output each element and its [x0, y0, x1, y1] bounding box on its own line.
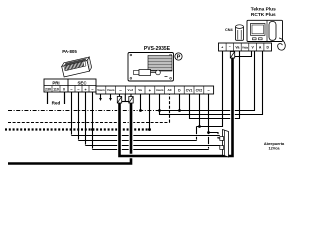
monitor body — [247, 20, 285, 50]
svg-text:RCTK Plus: RCTK Plus — [251, 12, 276, 18]
wire: PVS CV2 drop — [199, 94, 201, 127]
wire: riser arrow stub Vsum1 — [100, 94, 102, 98]
handset cord — [278, 38, 286, 50]
wire: mains wire from PRI 0 — [64, 92, 66, 104]
wire: SEC1 down and right to door strike top terminal — [71, 92, 73, 136]
svg-text:Tekna Plus: Tekna Plus — [251, 7, 276, 13]
node: junction SEC4/H3 — [91, 128, 94, 131]
svg-text:Va: Va — [235, 45, 239, 49]
wire: mains wire from PRI 230 — [47, 92, 49, 104]
svg-text:+: + — [221, 45, 223, 49]
svg-text:Asum: Asum — [156, 88, 164, 92]
splice connector on wire B at monitor end — [230, 52, 234, 59]
svg-text:Vsum: Vsum — [97, 88, 105, 92]
wire: PVS + drop to H3 — [149, 94, 151, 130]
svg-text:Va: Va — [138, 88, 142, 92]
wire: PVS Va drop to H1 — [140, 94, 142, 111]
wire: riser arrow stub Vsum2 — [110, 94, 112, 98]
svg-text:CN4: CN4 — [225, 28, 233, 32]
wire: thin stubs and bridge above splices — [119, 94, 121, 97]
svg-text:CV1: CV1 — [186, 89, 193, 93]
wire: bus H1 solid part to monitor V — [160, 51, 255, 111]
wire: PVS last cell drop, y132 run to strike — [209, 94, 220, 138]
wire: bus H2 dashed — [8, 122, 170, 124]
symbol: circled P — [175, 53, 182, 61]
wire: dashed riser A0 — [169, 94, 171, 123]
svg-text:Abrepuerta: Abrepuerta — [264, 142, 285, 146]
wire: thick wire A from left edge up to PVS V+2 — [8, 102, 131, 164]
svg-text:−: − — [229, 45, 231, 49]
svg-text:P: P — [177, 55, 181, 61]
wire: SEC4 down through H3 and right to x209 riser — [92, 92, 94, 150]
wire: PVS D drop to H1 — [179, 94, 181, 111]
transformer PA-805 body — [61, 57, 92, 77]
node: junction CV2/y126 — [198, 125, 201, 128]
svg-text:0: 0 — [63, 88, 65, 92]
svg-text:Vsum: Vsum — [107, 88, 115, 92]
door panel PVS-2935E body — [128, 53, 174, 82]
svg-text:PRI: PRI — [52, 80, 59, 85]
wire: thin feed from monitor Vida cell to splice — [235, 51, 252, 57]
svg-text:Vida: Vida — [242, 45, 248, 49]
door strike (abrepuerta) symbol — [220, 130, 229, 158]
svg-text:230: 230 — [45, 88, 51, 92]
svg-text:~: ~ — [119, 88, 122, 93]
splice connector on wire A — [129, 97, 133, 104]
splice connector on wire B — [117, 97, 121, 104]
svg-text:PVS-2935E: PVS-2935E — [144, 46, 171, 52]
svg-text:110: 110 — [53, 88, 59, 92]
svg-text:12Vca: 12Vca — [269, 147, 281, 151]
wire: thick wire B from PVS ~ to monitor - — [120, 58, 233, 156]
svg-text:V+2: V+2 — [128, 88, 134, 92]
svg-text:SEC: SEC — [77, 80, 87, 85]
connector CN4 body — [236, 25, 244, 40]
wire: PVS Asum drop to y114 run then monitor A — [160, 51, 263, 115]
svg-text:PA-805: PA-805 — [62, 49, 77, 54]
svg-text:A0: A0 — [168, 88, 172, 92]
svg-text:Red: Red — [52, 101, 61, 106]
wire: bus H1 dashed part — [8, 110, 160, 112]
terminal strip of monitor (7 cells) — [219, 43, 272, 51]
node: junction Asum/H1 — [158, 109, 161, 112]
wire: riser x209 from SEC4 run — [208, 133, 210, 150]
node: junction x209/y132 — [207, 131, 210, 134]
wire: SEC3 down and right to door strike bottom terminal — [85, 92, 87, 146]
wire: y126 run to monitor + — [197, 51, 223, 127]
svg-text:CV2: CV2 — [196, 89, 203, 93]
wire: PVS CV1 drop, y118 run to monitor Va — [190, 51, 240, 119]
terminal block PRI/SEC of PA-805 — [44, 79, 96, 92]
node: junction Va/H1 — [139, 109, 142, 112]
wire: bus H3 thick dotted — [5, 128, 150, 130]
terminal strip of PVS panel (12 cells) — [96, 86, 214, 94]
wire: SEC2 down and right to x197 riser — [78, 92, 80, 141]
wire: riser x197 from SEC2 run — [196, 127, 198, 141]
node: junction D/H1 — [178, 109, 181, 112]
node: junction +/H3 — [148, 128, 151, 131]
